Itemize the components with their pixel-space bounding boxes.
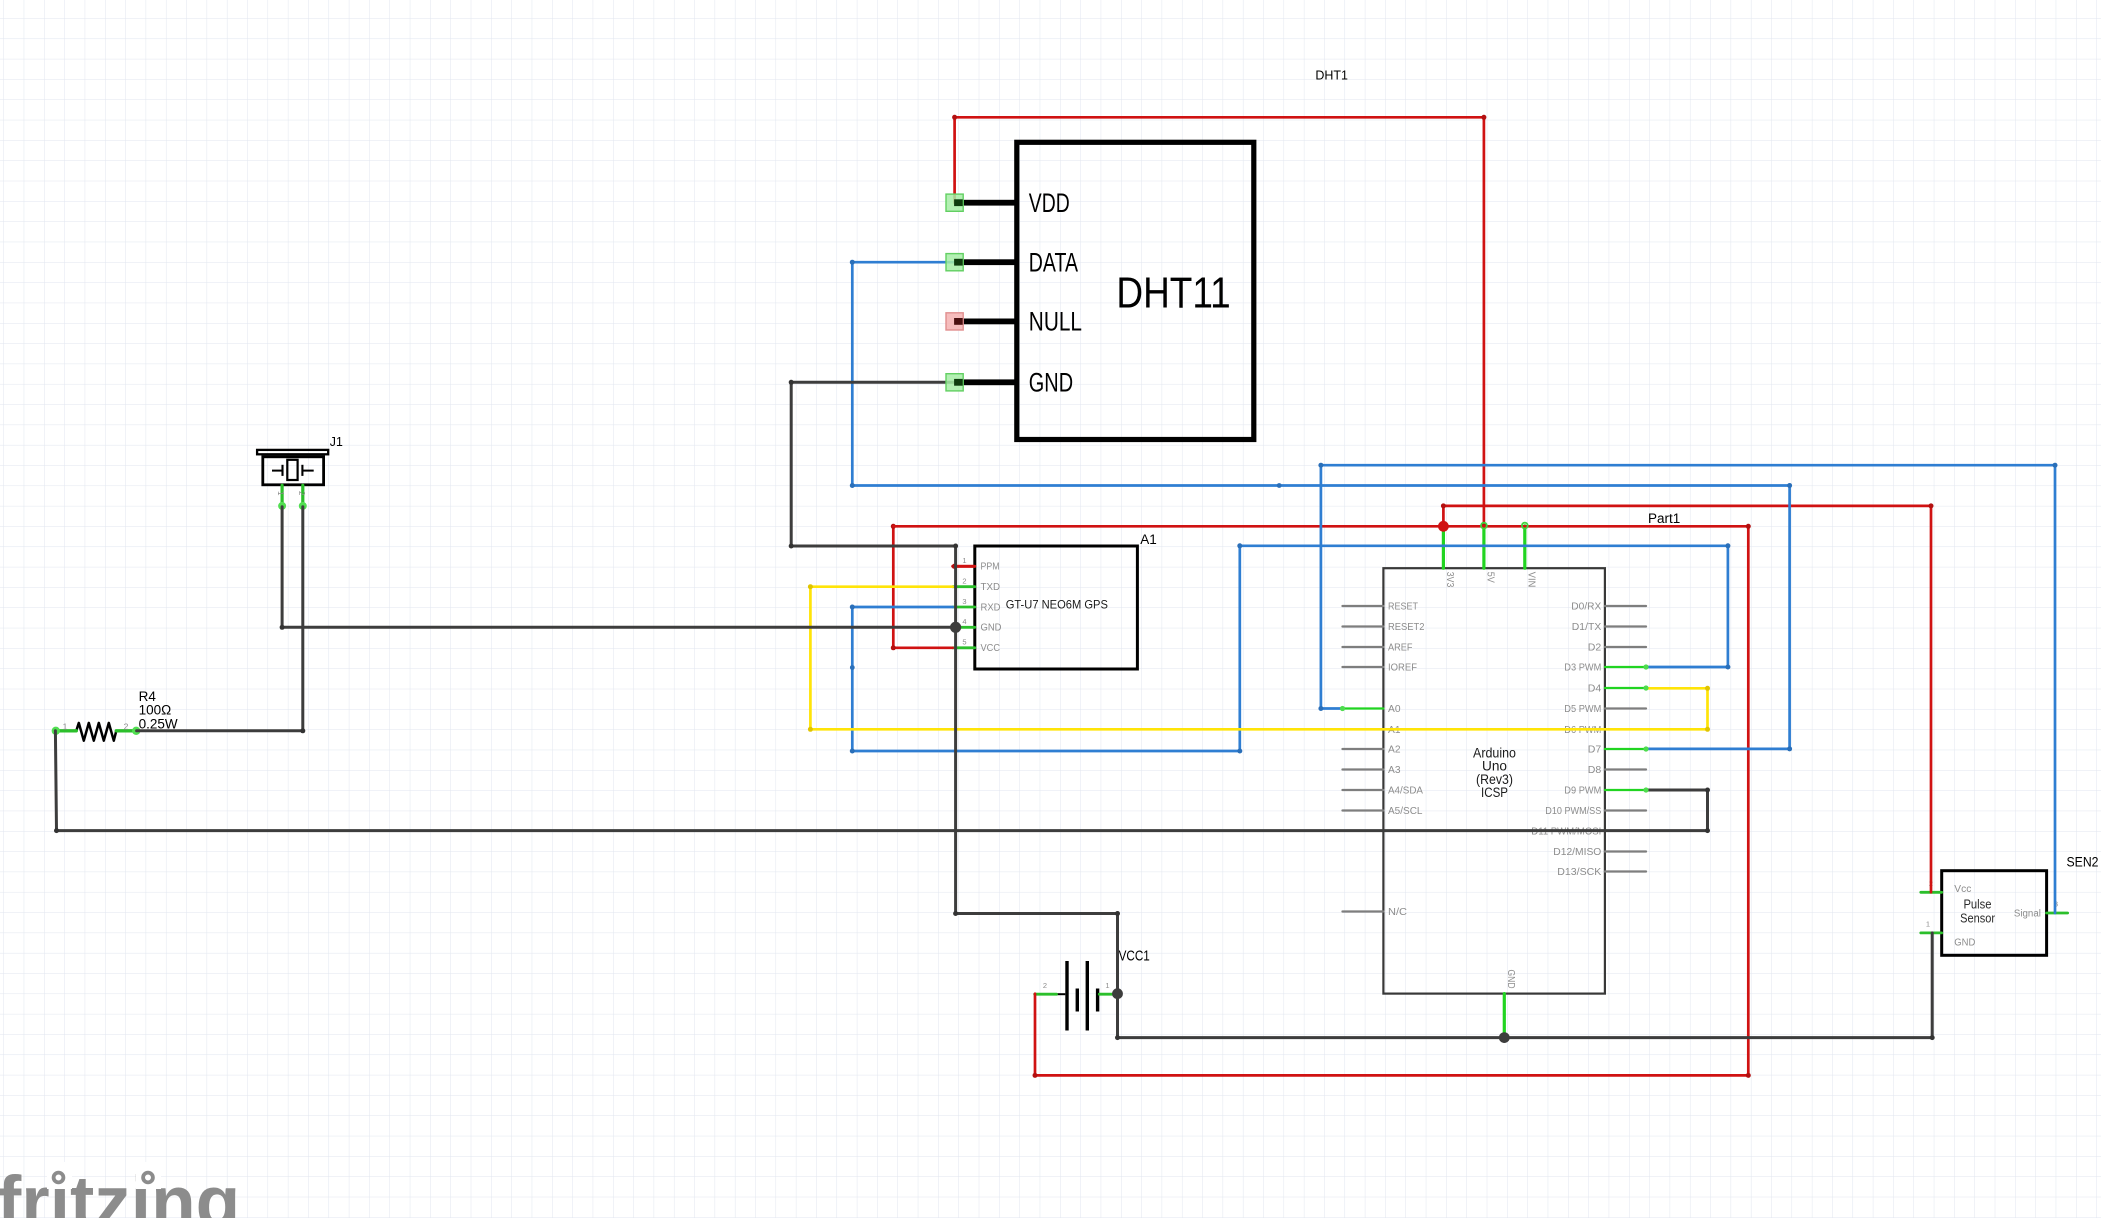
svg-text:A1: A1 <box>1140 532 1157 547</box>
svg-text:D1/TX: D1/TX <box>1572 621 1602 633</box>
Part1 center title <box>1473 746 1516 801</box>
svg-text:D5 PWM: D5 PWM <box>1564 703 1601 715</box>
DHT11 body box <box>1017 142 1254 439</box>
wire black J1 pin2 to R4 pin2 <box>137 507 306 734</box>
node marker Arduino D9 <box>1643 787 1648 792</box>
svg-text:ICSP: ICSP <box>1481 785 1508 800</box>
svg-text:IOREF: IOREF <box>1388 662 1417 674</box>
wire red power bus to battery positive branch <box>893 524 1751 1078</box>
battery plates <box>1065 961 1099 1031</box>
svg-text:1: 1 <box>1105 981 1109 990</box>
svg-text:A2: A2 <box>1388 744 1401 756</box>
A1 pin 1 PPM leg <box>953 556 1000 573</box>
svg-text:2: 2 <box>124 721 129 731</box>
svg-text:AREF: AREF <box>1388 642 1413 654</box>
node marker Arduino A0 <box>1340 706 1345 711</box>
svg-text:Pulse: Pulse <box>1963 897 1991 911</box>
Part1 left pin IOREF <box>1343 662 1418 674</box>
J1 pin 2 leg <box>297 485 307 510</box>
svg-text:DHT1: DHT1 <box>1315 68 1348 83</box>
svg-text:100Ω: 100Ω <box>139 703 172 718</box>
junction black at GPS GND <box>950 622 961 633</box>
J1 body <box>263 457 324 485</box>
DHT1 pin NULL <box>955 319 1017 325</box>
Part1 right pin D1/TX <box>1572 621 1646 633</box>
crystal oscillator J1 <box>257 435 343 510</box>
svg-text:VCC: VCC <box>981 643 1001 654</box>
svg-text:D2: D2 <box>1588 642 1602 654</box>
svg-text:RESET2: RESET2 <box>1388 621 1425 633</box>
battery VCC1 <box>1035 948 1150 1031</box>
A1 body box <box>975 546 1138 669</box>
svg-text:3: 3 <box>962 597 966 606</box>
svg-text:Sensor: Sensor <box>1960 912 1995 926</box>
svg-text:PPM: PPM <box>981 562 1000 573</box>
battery pin 2 leg <box>1035 981 1057 994</box>
Part1 left pin A4/SDA <box>1343 785 1424 797</box>
battery lead line <box>1057 993 1066 995</box>
Part1 right pin D8 <box>1588 764 1646 776</box>
svg-text:TXD: TXD <box>981 582 1001 593</box>
Part1 left pin A0 <box>1343 703 1401 715</box>
svg-text:DHT11: DHT11 <box>1116 269 1230 318</box>
wire blue Arduino A0 to SEN2 Signal <box>1318 463 2057 913</box>
svg-text:1: 1 <box>63 722 68 732</box>
J1 top cap bar <box>257 450 328 454</box>
svg-text:NULL: NULL <box>1029 307 1082 337</box>
svg-text:1: 1 <box>962 556 966 565</box>
svg-text:RXD: RXD <box>981 602 1001 613</box>
SEN2 pin 3 Signal leg <box>2014 900 2068 920</box>
Part1 right pin D11 PWM/MOSI <box>1531 825 1646 837</box>
node marker Arduino VIN stub top <box>1522 523 1528 529</box>
svg-text:RESET: RESET <box>1388 601 1418 613</box>
Arduino Uno (Rev3) ICSP Part1 <box>1343 511 1681 1038</box>
Part1 left pin RESET2 <box>1343 621 1425 633</box>
junction black at Arduino GND stub <box>1499 1032 1510 1043</box>
wire black DHT1 GND down to GPS GND column <box>789 380 958 628</box>
wire red DHT1 VDD to Arduino 5V <box>952 115 1486 529</box>
GPS module A1 GT-U7 NEO6M <box>953 532 1157 669</box>
Part1 right pin D4 <box>1588 683 1646 695</box>
resistor R4 100ohm 0.25W <box>52 689 178 741</box>
J1 pin 1 leg <box>276 485 286 510</box>
svg-text:A3: A3 <box>1388 764 1401 776</box>
svg-text:4: 4 <box>962 617 966 626</box>
battery pin 1 leg <box>1099 981 1116 994</box>
Part1 bottom pin GND <box>1504 970 1517 1038</box>
Part1 left pin N/C <box>1343 906 1408 918</box>
svg-text:2: 2 <box>297 491 306 496</box>
DHT1 terminal NULL (red, unconnected) <box>946 313 963 330</box>
Part1 right pin D0/RX <box>1571 601 1646 613</box>
svg-text:5: 5 <box>962 638 966 647</box>
wire black J1 pin1 to GPS GND <box>280 507 956 630</box>
svg-text:D4: D4 <box>1588 683 1602 695</box>
svg-text:Part1: Part1 <box>1648 511 1680 526</box>
R4 value labels <box>139 689 178 732</box>
svg-text:VIN: VIN <box>1526 572 1538 588</box>
sensor DHT1 DHT11 humidity/temperature <box>955 68 1348 440</box>
Part1 right pin D6 PWM <box>1564 724 1646 736</box>
Part1 right pin D3 PWM <box>1564 662 1646 674</box>
R4 pin 1 leg <box>52 722 77 735</box>
wire red GPS VCC to red power bus <box>891 524 953 651</box>
svg-text:GT-U7 NEO6M GPS: GT-U7 NEO6M GPS <box>1006 598 1108 612</box>
svg-text:VDD: VDD <box>1029 188 1070 218</box>
fritzing logo watermark <box>0 1162 240 1223</box>
svg-text:GND: GND <box>1505 970 1517 989</box>
junction black at battery pin 1 <box>1112 988 1123 999</box>
svg-text:A4/SDA: A4/SDA <box>1388 785 1423 797</box>
wire blue DHT1 DATA to Arduino D7 <box>850 260 1792 752</box>
Part1 right pin D10 PWM/SS <box>1545 805 1646 817</box>
SEN2 title <box>1960 897 1995 925</box>
Part1 right pin D2 <box>1588 642 1646 654</box>
node marker Arduino 5V stub top <box>1481 523 1487 529</box>
svg-text:D7: D7 <box>1588 744 1602 756</box>
svg-text:fritzing: fritzing <box>0 1162 240 1218</box>
DHT1 pin GND <box>955 379 1017 385</box>
Part1 right pin D7 <box>1588 744 1646 756</box>
svg-text:5V: 5V <box>1485 572 1497 583</box>
svg-text:SEN2: SEN2 <box>2067 855 2099 870</box>
A1 pin 2 TXD leg <box>953 577 1000 594</box>
svg-text:J1: J1 <box>330 435 343 449</box>
svg-text:GND: GND <box>981 623 1002 634</box>
svg-text:A0: A0 <box>1388 703 1401 715</box>
wire red branch to SEN2 Vcc <box>1441 503 1934 892</box>
Part1 top pin 3V3 <box>1443 526 1456 588</box>
svg-text:1: 1 <box>276 491 285 496</box>
DHT1 terminal VDD (green) <box>946 194 963 211</box>
SEN2 pin 1 GND leg <box>1921 920 1976 949</box>
svg-text:D10 PWM/SS: D10 PWM/SS <box>1545 805 1601 817</box>
DHT1 terminal DATA (green) <box>946 254 963 271</box>
Part1 left pin RESET <box>1343 601 1419 613</box>
svg-text:2: 2 <box>962 577 966 586</box>
wire black GND column to battery positive <box>953 627 1120 993</box>
DHT1 terminal GND (green) <box>946 374 963 391</box>
svg-text:D3 PWM: D3 PWM <box>1564 662 1601 674</box>
Part1 top pin 5V <box>1484 526 1497 583</box>
svg-text:R4: R4 <box>139 689 157 704</box>
Part1 left pin A3 <box>1343 764 1401 776</box>
wire yellow GPS TXD to Arduino A1 and D4 <box>808 584 1710 732</box>
svg-text:VCC1: VCC1 <box>1119 948 1150 965</box>
DHT1 pin VDD <box>955 200 1017 206</box>
svg-text:Signal: Signal <box>2014 909 2041 920</box>
svg-text:0.25W: 0.25W <box>139 716 178 731</box>
Part1 left pin AREF <box>1343 642 1413 654</box>
svg-text:DATA: DATA <box>1029 248 1078 278</box>
junction red at Arduino 3V3 <box>1438 521 1449 532</box>
R4 pin 2 leg <box>116 721 140 735</box>
SEN2 body box <box>1942 871 2047 956</box>
Part1 right pin D5 PWM <box>1564 703 1646 715</box>
SEN2 pin 2 Vcc leg <box>1921 879 1972 895</box>
svg-text:2: 2 <box>1043 981 1047 990</box>
svg-text:N/C: N/C <box>1388 906 1407 918</box>
A1 pin 4 GND leg <box>953 617 1002 634</box>
Part1 top pin VIN <box>1525 526 1538 588</box>
wire blue GPS RXD to Arduino D3 PWM <box>850 543 1731 753</box>
Part1 left pin A1 <box>1343 724 1401 736</box>
wire red stub at GPS PPM <box>952 564 975 569</box>
node marker Arduino D3 <box>1643 664 1648 669</box>
Part1 left pin A2 <box>1343 744 1401 756</box>
Part1 body box <box>1383 568 1605 993</box>
A1 pin 5 VCC leg <box>953 638 1000 655</box>
Part1 right pin D9 PWM <box>1564 785 1646 797</box>
svg-text:D13/SCK: D13/SCK <box>1557 866 1601 878</box>
wire black R4 pin1 to Arduino D9 PWM <box>54 731 1710 833</box>
svg-text:D9 PWM: D9 PWM <box>1564 785 1601 797</box>
pulse sensor SEN2 <box>1921 855 2099 956</box>
R4 zigzag element <box>76 723 116 741</box>
svg-text:3V3: 3V3 <box>1444 572 1456 588</box>
J1 crystal symbol <box>272 460 314 480</box>
svg-text:GND: GND <box>1954 937 1975 948</box>
Part1 right pin D12/MISO <box>1553 846 1646 858</box>
A1 pin 3 RXD leg <box>953 597 1001 614</box>
DHT1 pin DATA <box>955 259 1017 265</box>
node marker Arduino D4 <box>1643 685 1648 690</box>
node marker Arduino D7 <box>1643 746 1648 751</box>
svg-text:D0/RX: D0/RX <box>1571 601 1601 613</box>
Part1 right pin D13/SCK <box>1557 866 1646 878</box>
svg-text:Vcc: Vcc <box>1954 884 1971 895</box>
svg-text:D12/MISO: D12/MISO <box>1553 846 1601 858</box>
svg-text:GND: GND <box>1029 368 1073 398</box>
svg-text:A5/SCL: A5/SCL <box>1388 805 1423 817</box>
svg-text:D8: D8 <box>1588 764 1602 776</box>
Part1 left pin A5/SCL <box>1343 805 1423 817</box>
svg-text:1: 1 <box>1926 920 1930 929</box>
wire black battery to SEN2 GND ground bus <box>1115 933 1935 1040</box>
